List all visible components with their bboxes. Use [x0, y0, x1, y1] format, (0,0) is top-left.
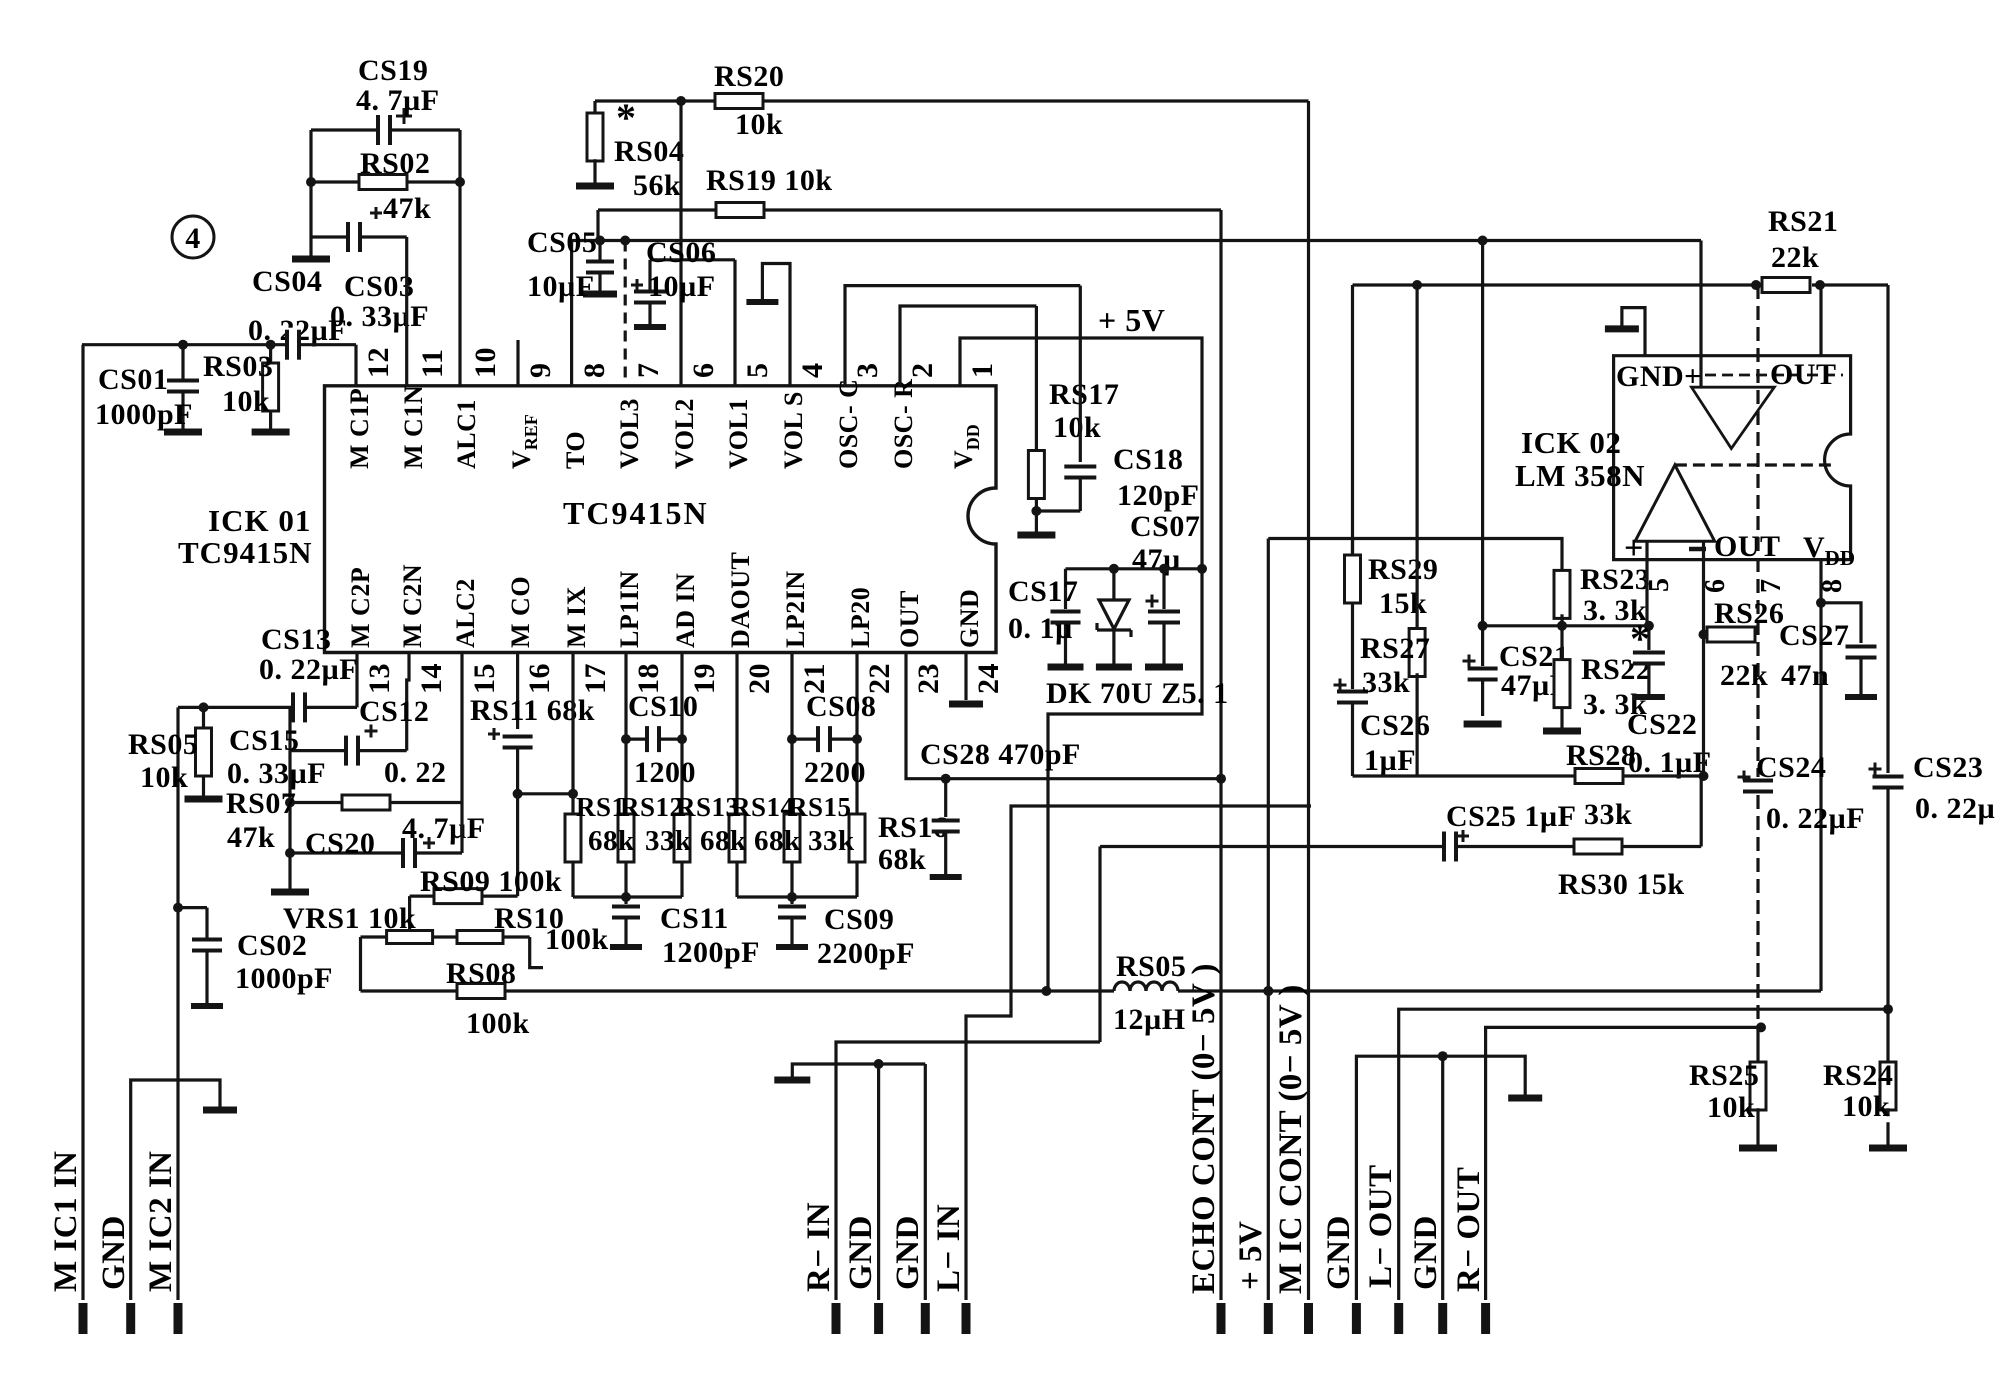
capacitor CS19: [378, 113, 390, 147]
ground RS04: [576, 183, 614, 190]
svg-text:0. 22µF: 0. 22µF: [1766, 802, 1865, 835]
wire CS18 top lead: [1079, 286, 1082, 462]
capacitor CS11: [624, 897, 627, 904]
wire RS03 top lead: [269, 345, 272, 365]
wire to RS23: [1268, 539, 1562, 575]
svg-text:33k: 33k: [1584, 798, 1632, 831]
wire CS01 top lead: [181, 345, 184, 381]
wire op-amp + input from pin8 rail: [1699, 241, 1702, 388]
terminal pin GND: [1352, 1303, 1361, 1334]
wire RS13 bottom lead: [680, 862, 683, 898]
wire RS19 rail: [598, 208, 1221, 211]
svg-text:RS21: RS21: [1768, 205, 1838, 238]
capacitor CS15/CS12: [346, 734, 358, 768]
terminal pin L-OUT: [1394, 1303, 1403, 1334]
svg-text:CS08: CS08: [806, 690, 876, 723]
svg-text:GND: GND: [1408, 1215, 1444, 1290]
svg-text:RS17: RS17: [1049, 378, 1119, 411]
wire riser CS13 to CS15 rail: [288, 707, 291, 750]
svg-text:RS05: RS05: [1116, 950, 1186, 983]
svg-text:0. 22: 0. 22: [384, 756, 447, 789]
svg-text:OSC- R: OSC- R: [889, 379, 918, 469]
terminal pin GND: [874, 1303, 883, 1334]
wire RS29/CS26 column: [1351, 285, 1354, 556]
resistor RS04: [587, 113, 603, 161]
node CS08 right: [852, 734, 862, 744]
svg-text:M IC CONT (0− 5V ): M IC CONT (0− 5V ): [1273, 984, 1309, 1294]
ground CS07: [1145, 664, 1183, 671]
wire RS03 bottom lead: [269, 410, 272, 430]
svg-text:RS24: RS24: [1823, 1059, 1893, 1092]
svg-text:VOL S: VOL S: [779, 391, 808, 469]
node L-OUT junction: [1883, 1004, 1893, 1014]
svg-text:1000pF: 1000pF: [95, 398, 193, 431]
svg-text:CS09: CS09: [824, 903, 894, 936]
wire RS04 top lead: [593, 101, 596, 116]
svg-text:VOL1: VOL1: [724, 398, 753, 469]
wire to ground CS03 node: [309, 237, 312, 256]
svg-text:M C1N: M C1N: [399, 385, 428, 469]
svg-text:CS20: CS20: [305, 827, 375, 860]
resistor RS12: [618, 814, 634, 862]
wire bank rail left group: [573, 895, 682, 898]
capacitor CS09: [790, 897, 793, 904]
svg-text:RS28: RS28: [1566, 739, 1636, 772]
node CS21: [1478, 621, 1488, 631]
svg-text:CS22: CS22: [1627, 708, 1697, 741]
svg-text:1µF: 1µF: [1364, 744, 1416, 777]
ground CS05: [583, 291, 617, 298]
svg-text:2200: 2200: [804, 756, 866, 789]
resistor RS15: [784, 814, 800, 862]
capacitor CS01: [165, 381, 201, 392]
wire RS19 drop to CS05 node: [596, 210, 599, 241]
wire pin8 column: [570, 241, 573, 386]
svg-text:10: 10: [469, 347, 502, 378]
svg-text:AD IN: AD IN: [671, 573, 700, 648]
wire pin14 column: [407, 653, 409, 751]
svg-text:12µH: 12µH: [1113, 1003, 1186, 1036]
wire L-IN column steps: [966, 806, 1311, 1300]
svg-text:+ 5V: + 5V: [1098, 302, 1165, 338]
wire CS19 top: [311, 128, 460, 131]
CS26 plus: [1334, 684, 1347, 687]
svg-text:RS19 10k: RS19 10k: [706, 164, 833, 197]
op-amp U1 body: ICK01 TC9415N DIP-24 outline: [325, 386, 997, 653]
wire GND column 1: [877, 1064, 880, 1300]
wire CS03: [311, 235, 407, 238]
op-amp B triangle (lower): [1635, 465, 1715, 541]
pin4 stub hook to ground: [762, 264, 790, 386]
wire pin6 column: [679, 101, 682, 386]
ground CS21: [1464, 721, 1502, 728]
wire RS12 bottom lead: [624, 862, 627, 898]
terminal pin MIC CONT: [1304, 1303, 1313, 1334]
resistor RS07: [342, 795, 390, 810]
resistor RS19: [716, 203, 764, 218]
capacitor CS27 hook from pin8: [1821, 603, 1861, 643]
svg-text:20: 20: [743, 663, 776, 694]
capacitor CS05: [598, 241, 601, 262]
node RS17/CS18: [1031, 506, 1041, 516]
svg-text:0. 22µ: 0. 22µ: [1915, 792, 1995, 825]
svg-text:10k: 10k: [1707, 1091, 1755, 1124]
svg-text:100k: 100k: [545, 923, 609, 956]
wire RS17 top lead: [1035, 306, 1038, 451]
svg-text:RS26: RS26: [1714, 597, 1784, 630]
wire RS04 bottom lead: [593, 159, 596, 183]
resistor RS24: [1880, 1062, 1896, 1110]
wire CS25 rail left column: [1098, 847, 1101, 1043]
wire pin column RS15: [790, 653, 793, 816]
zener diode DK70U: [1112, 569, 1115, 599]
node +5V terminal junction: [1263, 986, 1273, 996]
wire pin9 stub: [516, 340, 519, 386]
terminal pin GND: [1438, 1303, 1447, 1334]
wire to ground CS20 node: [288, 853, 291, 889]
svg-text:10µF: 10µF: [527, 270, 595, 303]
svg-text:GND: GND: [955, 589, 984, 648]
ground hook above ICK02: [1622, 308, 1645, 356]
svg-text:22k: 22k: [1771, 241, 1819, 274]
terminal pin MIC1 IN: [79, 1303, 88, 1334]
svg-text:CS12: CS12: [359, 695, 429, 728]
ground RS24: [1869, 1145, 1907, 1152]
node CS22/pin5: [1644, 621, 1654, 631]
wire L-OUT column and rail: [1399, 1009, 1888, 1300]
label - input lower: [1689, 547, 1706, 552]
capacitor CS28: [944, 779, 947, 817]
svg-text:16: 16: [523, 663, 556, 694]
svg-text:7: 7: [1756, 579, 1787, 594]
svg-text:*: *: [616, 95, 637, 140]
CS19 plus: [396, 115, 412, 118]
wire R-OUT column and rail: [1486, 1027, 1761, 1300]
resistor RS29: [1345, 555, 1361, 603]
wire left column RS07/CS20: [288, 751, 291, 853]
wire pin column RS13: [680, 653, 683, 816]
svg-text:CS13: CS13: [261, 623, 331, 656]
svg-text:OUT: OUT: [895, 590, 924, 648]
wire GND-left hook: [131, 1080, 220, 1300]
svg-text:R− IN: R− IN: [801, 1202, 837, 1292]
svg-text:GND: GND: [890, 1215, 926, 1290]
wire RS23 bottom lead: [1560, 614, 1563, 626]
node R-OUT junction: [1756, 1022, 1766, 1032]
resistor RS13: [674, 814, 690, 862]
wire dashed inside ICK02 top: [1705, 374, 1843, 377]
wire pin8 (ICK02) column down to bottom rail: [1819, 560, 1822, 991]
svg-text:2200pF: 2200pF: [817, 937, 915, 970]
svg-text:47k: 47k: [227, 821, 275, 854]
ground CS09: [776, 944, 808, 950]
wire CS01 bottom lead: [181, 391, 184, 429]
svg-text:TC9415N: TC9415N: [178, 535, 312, 570]
svg-text:VOL3: VOL3: [615, 398, 644, 469]
svg-text:M C2P: M C2P: [346, 567, 375, 648]
svg-text:ICK 01: ICK 01: [208, 503, 311, 538]
wire pin10 column to CS19/RS02: [458, 182, 461, 386]
svg-text:RS04: RS04: [614, 135, 684, 168]
svg-text:RS23: RS23: [1580, 563, 1650, 596]
ground pin4 hook: [746, 299, 778, 305]
ground RS17: [1017, 532, 1055, 539]
wire pin15 column: [460, 653, 463, 854]
svg-text:1200: 1200: [634, 756, 696, 789]
capacitor CS23: [1871, 777, 1906, 788]
svg-text:CS28 470pF: CS28 470pF: [920, 738, 1081, 771]
wire CS25 rail riser: [1700, 776, 1703, 847]
ground pin24: [949, 701, 983, 708]
node CS27 hook: [1816, 598, 1826, 608]
op-amp A triangle (upper): [1692, 387, 1775, 448]
wire pin column RS16: [855, 653, 858, 816]
ground RS22: [1543, 728, 1581, 735]
resistor RS10: [457, 931, 503, 944]
wire pin column RS14: [735, 653, 738, 816]
wire RS17 bottom lead: [1035, 498, 1038, 532]
wire pin5 to CS06: [650, 258, 735, 261]
node RS02 right: [455, 177, 465, 187]
svg-text:M CO: M CO: [506, 576, 535, 648]
resistor RS02: [359, 175, 407, 190]
wire pin23 to ECHO column: [906, 653, 1222, 779]
wire RS16 bottom lead: [855, 862, 858, 898]
svg-text:L− IN: L− IN: [931, 1204, 967, 1292]
wire pin2 rail to RS17: [900, 306, 1036, 386]
wire CS20 rail: [290, 851, 462, 854]
svg-text:RS02: RS02: [360, 147, 430, 180]
capacitor CS18: [1062, 467, 1098, 478]
capacitor CS17: [1064, 569, 1067, 609]
wire CS26 to rail: [1351, 703, 1354, 776]
svg-text:CS23: CS23: [1913, 751, 1983, 784]
wire MIC2 IN column: [176, 707, 179, 1300]
node CS02: [173, 903, 183, 913]
svg-text:5: 5: [741, 363, 774, 379]
svg-text:23: 23: [912, 663, 945, 694]
svg-text:10k: 10k: [1842, 1090, 1890, 1123]
capacitor CS21 electrolytic: [1481, 626, 1484, 666]
svg-text:68k: 68k: [878, 843, 926, 876]
svg-text:RS08: RS08: [446, 957, 516, 990]
wire RS15 bottom lead: [790, 862, 793, 898]
svg-text:ICK 02: ICK 02: [1521, 425, 1621, 460]
wire far right column CS23/RS24: [1886, 285, 1889, 773]
capacitor CS22: [1647, 626, 1650, 650]
node ECHO junction: [1216, 774, 1226, 784]
wire RS02: [311, 180, 460, 183]
wire RS29 to CS26: [1351, 602, 1354, 689]
wire pin8 rail to op-amp input: [572, 239, 1701, 242]
CS24 plus: [1738, 776, 1751, 779]
resistor RS08: [457, 984, 505, 999]
wire pin24 to ground: [964, 653, 967, 701]
svg-text:ECHO CONT (0− 5V ): ECHO CONT (0− 5V ): [1186, 963, 1222, 1294]
capacitor CS25: [1444, 830, 1456, 864]
node bank rail left: [513, 789, 523, 799]
svg-text:M C1P: M C1P: [345, 388, 374, 469]
svg-text:RS07: RS07: [226, 787, 296, 820]
svg-text:33k: 33k: [808, 825, 855, 857]
wire GND column right2: [1441, 1056, 1444, 1300]
capacitor CS13: [293, 690, 305, 724]
wire R-IN column and rail: [836, 1042, 1100, 1300]
node RS22: [1557, 621, 1567, 631]
node RS07 left: [285, 798, 295, 808]
svg-text:R− OUT: R− OUT: [1451, 1167, 1487, 1292]
ground CS19/CS03 node: [292, 256, 330, 263]
wire pin12 column: [354, 345, 357, 386]
node CS05: [595, 236, 605, 246]
node DK rail bottom: [1041, 986, 1051, 996]
svg-text:47µ: 47µ: [1132, 543, 1181, 576]
svg-text:4: 4: [796, 363, 829, 379]
svg-text:10k: 10k: [140, 761, 188, 794]
svg-text:47n: 47n: [1781, 659, 1829, 692]
node pin6 rail: [676, 96, 686, 106]
ground CS06: [634, 324, 666, 330]
svg-text:OSC- C: OSC- C: [834, 379, 863, 469]
wire MIC1 IN column: [81, 345, 84, 1300]
svg-text:9: 9: [524, 363, 557, 379]
svg-text:OUT: OUT: [1770, 358, 1837, 391]
svg-text:M C2N: M C2N: [398, 564, 427, 648]
node CS08 left: [787, 734, 797, 744]
resistor RS16: [849, 814, 865, 862]
node RS27 top: [1412, 280, 1422, 290]
wire RS07 rail: [290, 801, 462, 804]
wire CS15/CS12 rail: [290, 749, 407, 752]
ground CS01: [164, 429, 202, 436]
svg-text:8: 8: [1817, 579, 1848, 594]
capacitor CS24: [1741, 781, 1775, 792]
node CS10 left: [621, 734, 631, 744]
wire CS18 to RS17: [1036, 509, 1080, 512]
svg-text:120pF: 120pF: [1117, 479, 1200, 512]
node CS07 top: [1159, 564, 1169, 574]
wire RS27 bottom lead: [1415, 673, 1418, 776]
svg-text:LM 358N: LM 358N: [1515, 458, 1645, 493]
CS25 plus: [1457, 835, 1469, 838]
node CS11: [621, 892, 631, 902]
potentiometer VRS1: [408, 896, 411, 931]
svg-text:68k: 68k: [754, 825, 801, 857]
svg-text:RS11 68k: RS11 68k: [470, 694, 595, 727]
capacitor CS03: [348, 220, 360, 254]
wire pin6 column ICK02: [1702, 560, 1705, 776]
capacitor CS08: [792, 737, 857, 740]
svg-text:+ 5V: + 5V: [1233, 1221, 1269, 1290]
svg-text:RS25: RS25: [1689, 1059, 1759, 1092]
resistor RS28: [1575, 769, 1623, 784]
CS20 plus: [423, 842, 435, 845]
svg-text:100k: 100k: [466, 1007, 530, 1040]
wire RS10 drop stub: [530, 937, 543, 968]
svg-text:RS12: RS12: [620, 792, 684, 822]
svg-text:DK 70U Z5. 1: DK 70U Z5. 1: [1046, 677, 1229, 710]
svg-text:33k: 33k: [1362, 666, 1410, 699]
wire RS21 rail left part: [1353, 283, 1757, 286]
wire GND pair rail (far right): [1356, 1056, 1525, 1300]
resistor RS14: [729, 814, 745, 862]
svg-text:CS17: CS17: [1008, 575, 1078, 608]
CS23 plus: [1869, 768, 1882, 771]
node pin7: [620, 236, 630, 246]
svg-text:CS27: CS27: [1779, 619, 1849, 652]
svg-text:RS03: RS03: [203, 350, 273, 383]
svg-text:10k: 10k: [222, 385, 270, 418]
resistor RS25: [1750, 1062, 1766, 1110]
svg-text:VOL2: VOL2: [670, 398, 699, 469]
svg-text:M IX: M IX: [562, 586, 591, 648]
svg-text:1: 1: [966, 363, 999, 379]
resistor RS26: [1707, 627, 1755, 642]
terminal pin MIC2 IN: [174, 1303, 183, 1334]
svg-text:24: 24: [972, 663, 1005, 694]
svg-text:GND: GND: [1321, 1215, 1357, 1290]
wire pin column RS11: [571, 653, 574, 816]
svg-text:RS15: RS15: [788, 792, 852, 822]
wire pin7 column: [624, 241, 627, 386]
svg-text:CS07: CS07: [1130, 510, 1200, 543]
resistor RS21: [1762, 278, 1810, 293]
svg-text:M IC1 IN: M IC1 IN: [48, 1151, 84, 1293]
capacitor CS07 electrolytic: [1162, 569, 1165, 609]
node CS10 right: [677, 734, 687, 744]
node CS28: [941, 774, 951, 784]
wire bottom rail right of inductor: [1178, 989, 1821, 992]
svg-text:GND: GND: [843, 1215, 879, 1290]
svg-text:14: 14: [415, 663, 448, 694]
svg-text:ALC1: ALC1: [452, 399, 481, 469]
svg-text:4: 4: [185, 222, 201, 255]
node CS01 top: [178, 340, 188, 350]
node zener top: [1109, 564, 1119, 574]
wire pin5 column: [733, 260, 736, 386]
svg-text:RS05: RS05: [128, 728, 198, 761]
resistor RS05 10k (left): [202, 707, 205, 729]
ground CS11: [610, 944, 642, 950]
svg-text:CS10: CS10: [628, 690, 698, 723]
wire op-amp B inputs stubs: [1645, 541, 1648, 559]
svg-text:68k: 68k: [700, 825, 747, 857]
ground RS07/CS20: [271, 889, 309, 896]
svg-text:4. 7µF: 4. 7µF: [402, 812, 486, 845]
svg-text:RS13: RS13: [676, 792, 740, 822]
wire RS21 to op-amp A output: [1819, 285, 1822, 356]
ground CS17: [1048, 664, 1084, 671]
wire right vertical CS19-RS02: [458, 130, 461, 182]
svg-text:0. 33µF: 0. 33µF: [227, 757, 326, 790]
node RS21 left: [1751, 280, 1761, 290]
wire RS20 rail: [595, 99, 1309, 102]
resistor RS20: [715, 94, 763, 109]
sheet number 4 circled: [172, 216, 214, 258]
ground RS05 left: [185, 796, 223, 803]
ground zener: [1096, 664, 1132, 671]
wire GND pair rail (R side): [792, 1064, 925, 1077]
wire MIC1 input to pin 12: [82, 343, 356, 346]
wire long bottom rail (RS08/RS05): [361, 989, 1115, 992]
svg-text:CS01: CS01: [98, 363, 168, 396]
svg-text:GND: GND: [96, 1215, 132, 1290]
wire RS21 rail right part: [1812, 283, 1888, 286]
wire op-amp B output line: [1675, 463, 1833, 466]
ground R side GND pair: [774, 1077, 810, 1084]
capacitor CS04: [287, 328, 299, 362]
svg-text:RS29: RS29: [1368, 553, 1438, 586]
